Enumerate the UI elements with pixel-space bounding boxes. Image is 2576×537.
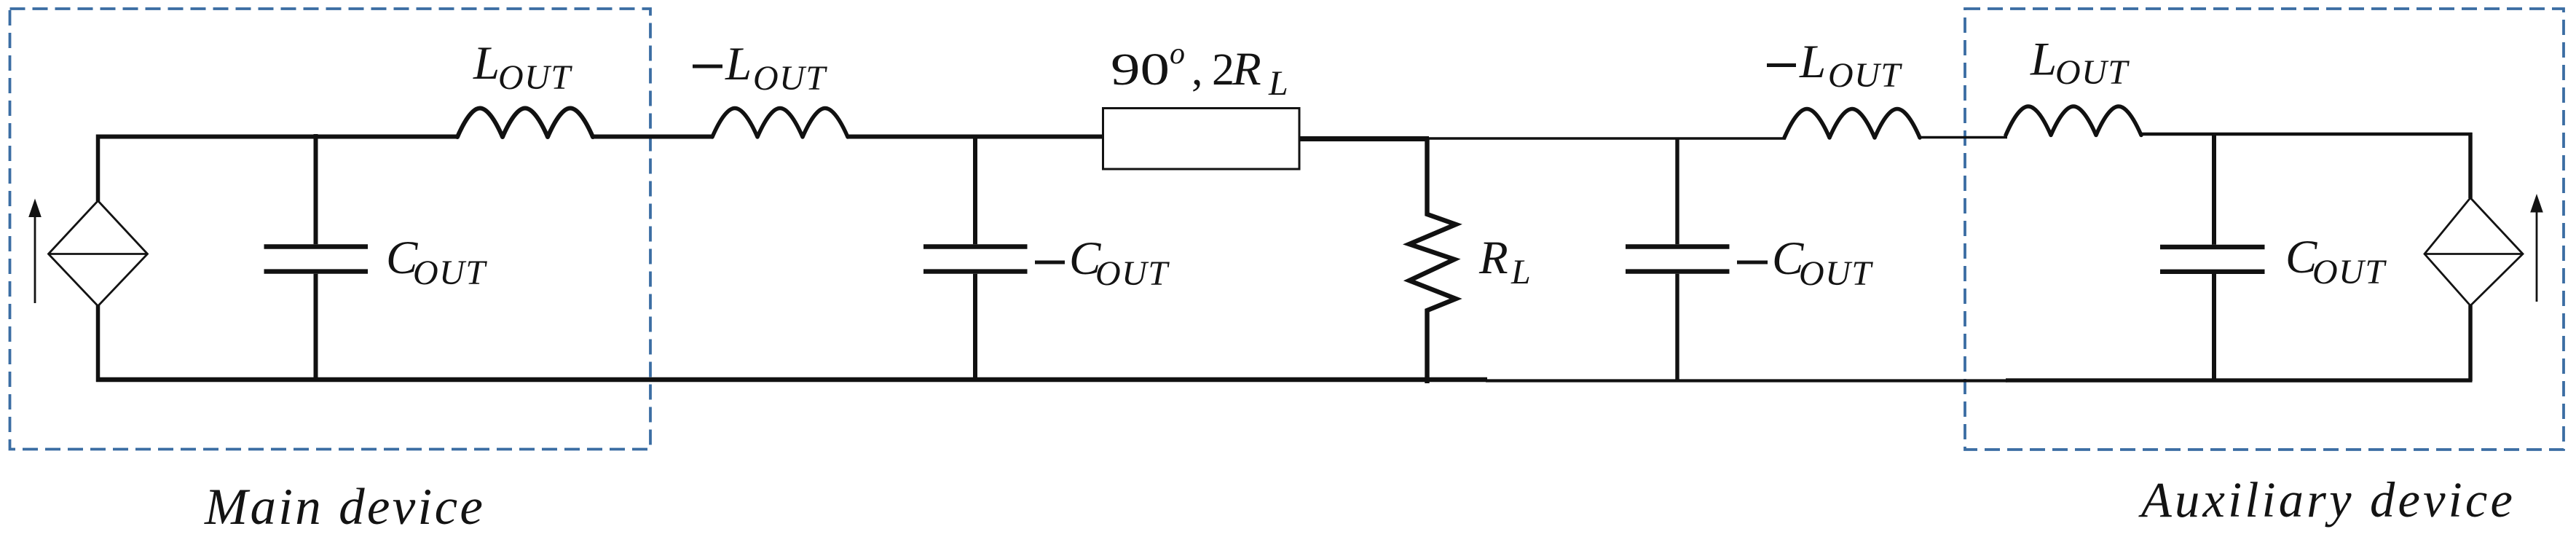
Auxiliary device boundary box: [1965, 9, 2564, 450]
wire between L_OUT and -L_OUT: [593, 135, 713, 139]
svg-text:L: L: [1268, 64, 1288, 103]
svg-text:OUT: OUT: [2055, 53, 2130, 92]
inductor -L_OUT right: [1784, 109, 1920, 138]
svg-text:Main device: Main device: [204, 479, 485, 533]
label L_OUT main: [473, 37, 572, 97]
svg-text:OUT: OUT: [1799, 254, 1873, 293]
wire R_L node to right -L_OUT: [1427, 137, 1786, 140]
svg-text:OUT: OUT: [413, 254, 487, 292]
capacitor -C_OUT shunt 1: leads: [973, 135, 977, 381]
wire -L_OUT to TL box: [847, 135, 1104, 139]
label C_OUT aux: [2285, 231, 2387, 291]
wire TL box to R_L node: [1299, 136, 1429, 141]
svg-text:OUT: OUT: [753, 59, 827, 98]
label L_OUT right: [2030, 34, 2130, 93]
label 90deg 2RL: [1111, 37, 1288, 103]
capacitor -C_OUT shunt 1: plates: [923, 247, 1028, 272]
wire between right inductors: [1919, 136, 2007, 139]
capacitor C_OUT aux: leads: [2212, 133, 2216, 381]
label R_L: [1478, 232, 1531, 291]
svg-text:L: L: [2030, 34, 2057, 86]
svg-text:2: 2: [1212, 45, 1234, 95]
current source I_aux branch wires: [2468, 133, 2473, 381]
svg-text:L: L: [473, 37, 500, 90]
wire right L_OUT to aux source: [2140, 133, 2473, 136]
svg-text:,: ,: [1192, 45, 1203, 95]
transmission line box 90deg 2RL: [1103, 109, 1300, 170]
capacitor C_OUT main: leads: [314, 134, 318, 381]
svg-text:Auxiliary device: Auxiliary device: [2138, 472, 2516, 528]
svg-text:90: 90: [1111, 45, 1170, 95]
capacitor C_OUT main: plates: [264, 247, 369, 272]
current source I_main branch wires: [96, 135, 101, 383]
svg-text:o: o: [1170, 37, 1185, 71]
wire top-left segment: [96, 135, 457, 139]
svg-text:L: L: [1799, 36, 1826, 88]
wire bottom thick: [96, 377, 1487, 383]
label -L_OUT left: [693, 38, 827, 98]
svg-text:OUT: OUT: [1095, 254, 1170, 293]
arrow I_main: [28, 199, 42, 304]
current source I_main: [49, 201, 148, 307]
capacitor -C_OUT shunt 2: leads: [1675, 138, 1679, 381]
wire bottom aux box: [2006, 378, 2473, 383]
label -C_OUT shunt 2: [1737, 232, 1873, 293]
svg-text:R: R: [1232, 43, 1261, 95]
current source I_aux: [2425, 198, 2523, 306]
label C_OUT main: [386, 232, 487, 292]
arrow I_aux: [2530, 194, 2543, 302]
capacitor -C_OUT shunt 2: plates: [1626, 247, 1730, 272]
inductor -L_OUT left: [712, 109, 848, 138]
label -C_OUT shunt 1: [1035, 232, 1170, 293]
label -L_OUT right: [1767, 36, 1902, 95]
svg-text:R: R: [1478, 232, 1508, 284]
Main device boundary box: [10, 9, 651, 450]
wire bottom thin: [1486, 379, 2007, 382]
svg-text:OUT: OUT: [1828, 56, 1902, 95]
capacitor C_OUT aux: plates: [2160, 247, 2265, 272]
inductor L_OUT right: [2006, 106, 2141, 136]
svg-text:L: L: [1510, 253, 1531, 291]
svg-text:OUT: OUT: [498, 58, 572, 97]
svg-text:L: L: [725, 38, 752, 90]
svg-text:OUT: OUT: [2312, 253, 2387, 291]
resistor R_L: [1409, 138, 1456, 383]
inductor L_OUT main: [457, 109, 593, 138]
